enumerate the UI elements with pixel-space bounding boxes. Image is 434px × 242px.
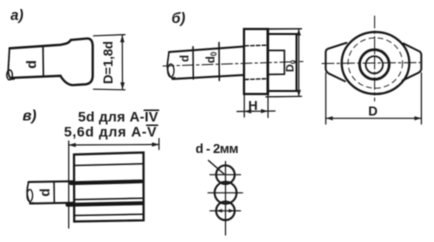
svg-text:d0: d0 [206, 51, 219, 63]
tick line d (part b) [192, 47, 194, 79]
hidden bar lines in washer (part b) [245, 44, 267, 47]
extension line right D [420, 73, 422, 124]
sleeve inner line 3 (part v) [74, 214, 144, 215]
bar left end face (part b) [167, 52, 174, 78]
svg-text:d: d [38, 188, 53, 196]
svg-text:d - 2мм: d - 2мм [196, 141, 238, 156]
tick arrows bottom circle [216, 209, 234, 213]
round view: hidden dashed circle [348, 38, 402, 88]
bar with upset head, part a outline [10, 38, 93, 85]
center line top circle [210, 174, 241, 176]
tick line d (part v) [53, 182, 55, 203]
extension lines H (part b) [243, 95, 245, 117]
weld band bottom (part v) [68, 203, 142, 205]
middle circle [215, 182, 237, 204]
svg-text:5,6d для А-V: 5,6d для А-V [64, 124, 157, 140]
bar top edge (part b) [169, 47, 244, 53]
center line (part b) [163, 62, 303, 67]
sleeve block (part v) outline [74, 153, 144, 222]
dimension line D0 (part b) [298, 29, 300, 96]
svg-text:б): б) [172, 11, 186, 27]
bar (part v) bottom edge [30, 202, 74, 205]
svg-text:D: D [368, 104, 377, 119]
boss step (part b) [268, 50, 284, 74]
extension line top (part a dim) [94, 35, 126, 36]
top circle [216, 165, 235, 184]
dimension line 5d (part v) [69, 144, 159, 147]
bar left end face (part a) [8, 48, 15, 79]
head outline (part b) [268, 34, 297, 91]
bottom circle [216, 202, 235, 221]
round view: left ear [326, 43, 347, 82]
extension line bottom (part a dim) [94, 88, 126, 91]
extension line right (part v dim) [158, 139, 160, 150]
dimension line D [326, 117, 422, 119]
round view: middle circle [360, 50, 390, 80]
round view: inner circle [366, 56, 383, 73]
leader line [209, 161, 225, 175]
sleeve inner line 1 (part v) [74, 164, 144, 166]
svg-text:d: d [180, 55, 192, 62]
extension line left (part v dim) [68, 141, 70, 228]
round view: right ear [403, 44, 422, 81]
center line bottom circle [210, 210, 241, 212]
dimension line H (part b) [237, 110, 275, 113]
svg-text:а): а) [11, 8, 24, 24]
svg-text:H: H [248, 98, 257, 113]
weld band top (part v) [71, 181, 141, 183]
round view: big circle [342, 32, 410, 94]
tick line d0 (part b) [218, 43, 220, 81]
extension line top D0 (part b) [268, 28, 302, 30]
center line middle circle [208, 192, 243, 194]
dimension line D=1,8d (part a) [121, 35, 123, 89]
svg-text:d: d [23, 60, 39, 69]
extension line left D [325, 73, 327, 124]
vertical center line (circles) [225, 162, 227, 236]
weld line in bar (part a) [42, 46, 44, 77]
svg-text:в): в) [23, 108, 37, 125]
bar (part v) top edge [29, 180, 75, 183]
round view: horizontal center line [322, 63, 424, 64]
bar bottom edge (part b) [173, 75, 245, 79]
svg-text:D=1,8d: D=1,8d [101, 41, 116, 84]
bar left end face (part v) [27, 182, 33, 203]
extension line bottom D0 (part b) [266, 95, 302, 97]
round view: vertical center line [374, 16, 376, 101]
sleeve inner line 2 (part v) [74, 198, 142, 199]
washer plate (part b) [244, 29, 268, 94]
